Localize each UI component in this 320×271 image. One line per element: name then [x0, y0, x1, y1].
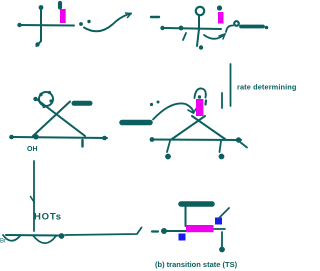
molecule M3: baseline left end dot [9, 135, 14, 140]
molecule M4: hook tail tick [204, 101, 207, 105]
molecule M4: diagonal bond left-down [172, 116, 205, 139]
molecule M1: highlighted C-H bond magenta bar [60, 9, 66, 23]
lone pair dot near A1 start [79, 22, 83, 26]
molecule M4: atom dot below-left [165, 154, 171, 160]
molecule M6: bond left to vertical [167, 230, 186, 232]
molecule M1: atom dot top [39, 5, 44, 10]
molecule M5: arc 1 [3, 235, 20, 241]
molecule M4: right tick [221, 93, 223, 108]
molecule M2: curved arrow under chain [204, 34, 225, 39]
molecule M2: left atom dot [160, 26, 164, 30]
molecule M4: right atom dot [236, 137, 241, 142]
molecule M4: right diagonal stub [240, 142, 247, 148]
molecule M2: dot at bottom hook [199, 45, 203, 49]
molecule M3: scribble dots [39, 93, 42, 96]
top-right squiggle annotation [226, 25, 233, 32]
molecule M2: loop circle at top [196, 7, 204, 15]
molecule M4: baseline [151, 139, 241, 142]
molecule M2: atom dot above highlight [217, 5, 222, 10]
curved arrow A2 [153, 103, 194, 119]
molecule M2: bond down [197, 29, 199, 46]
molecule M1: bond up [40, 9, 42, 25]
top-right tail dot [265, 26, 269, 30]
lone pair dot 2 near A1 start [87, 20, 90, 23]
molecule M6: blue atom lower-left [179, 234, 186, 241]
molecule M4: hook arc above [195, 88, 206, 98]
downward arrow A3 head [31, 197, 35, 203]
molecule M2: bond up [198, 16, 200, 29]
molecule M3: atom dot top-left [33, 97, 37, 101]
molecule M5: arc 2 [33, 236, 56, 244]
molecule M1: stub lower-left [37, 41, 42, 46]
molecule M6: vertical bond [185, 207, 187, 226]
lone pair dots near A2 [150, 103, 153, 106]
molecule M2: arrowhead of under-arc [219, 34, 225, 39]
molecule M4: highlighted bond magenta bar [196, 99, 203, 116]
molecule M1: horizontal bond [19, 24, 74, 27]
molecule M3: crossing bond B [33, 102, 70, 137]
molecule M6: atom dot bottom right [219, 247, 225, 253]
molecule M6: vertical right bond [221, 232, 223, 247]
nucleophile label bar [122, 120, 150, 126]
svg-text:OH: OH [27, 146, 38, 153]
molecule M4: dot above bar [198, 95, 201, 98]
molecule M6: left small dash [152, 230, 158, 232]
svg-text:rate determining: rate determining [237, 83, 297, 92]
molecule M4: stub below-left [167, 141, 170, 152]
molecule M3: right end dot [102, 136, 107, 141]
molecule M4: atom dot below-right [219, 154, 225, 160]
curved arrow A1 [84, 14, 131, 32]
top-right thick dash [241, 25, 263, 29]
molecule M3: thick bar label right [74, 101, 90, 106]
molecule M5: horizontal line [6, 234, 59, 237]
molecule M3: crossing bond A [37, 100, 85, 137]
top-right loop [234, 21, 239, 26]
molecule M2: left dash label [151, 16, 159, 18]
molecule M1: atom O left dot [17, 23, 21, 27]
molecule M6: diagonal up-right [219, 208, 229, 218]
molecule M6: highlighted bond magenta bar horizontal [186, 225, 214, 232]
molecule M6: bond right of magenta [214, 228, 225, 230]
molecule M4: left end dot [150, 137, 155, 142]
molecule M2: highlighted C-H bond magenta bar [218, 12, 224, 24]
molecule M6: atom dot left [161, 228, 167, 234]
molecule M2: stub below-left [183, 33, 186, 40]
arrowhead A1 [126, 13, 132, 18]
molecule M4: stub below-right [220, 141, 222, 152]
molecule M4: diagonal bond right-down [192, 116, 225, 139]
molecule M3: curled scribble [39, 92, 53, 106]
svg-text:Br: Br [0, 239, 6, 245]
molecule M3: baseline [13, 137, 107, 138]
molecule M3: atom dot on baseline [33, 134, 38, 139]
molecule M6: thick dash top [181, 201, 212, 207]
molecule M2: horizontal bond [165, 28, 221, 29]
right side vertical line [230, 64, 232, 106]
long line to the right with end riser [65, 228, 142, 236]
molecule M5: atom dot right [59, 233, 65, 239]
molecule M2: atom dot on chain [179, 26, 184, 31]
downward line A3 [33, 161, 35, 231]
svg-text:(b) transition state (TS): (b) transition state (TS) [155, 260, 238, 269]
molecule M3: stub below mid [81, 140, 83, 147]
arrowhead A2 [188, 108, 197, 113]
molecule M1: atom dot lower [35, 42, 39, 46]
svg-text:HOTs: HOTs [34, 212, 62, 223]
molecule M1: bond down [40, 25, 42, 41]
molecule M1: atom stub above highlight [58, 3, 62, 8]
molecule M6: blue atom upper-right [215, 218, 222, 225]
